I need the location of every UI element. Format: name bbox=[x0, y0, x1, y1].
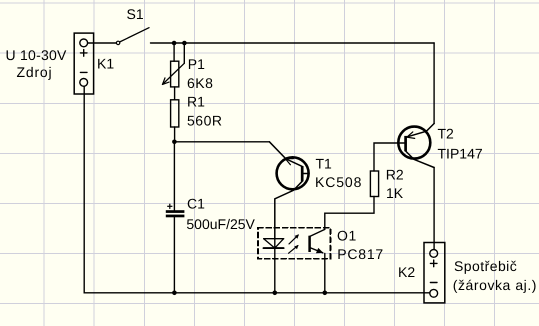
svg-text:6K8: 6K8 bbox=[187, 75, 213, 91]
switch S1 bbox=[116, 28, 149, 45]
svg-text:1K: 1K bbox=[386, 185, 404, 201]
connector K1 bbox=[74, 33, 93, 94]
label Spotřebič (žárovka aj.) load bbox=[453, 258, 537, 293]
label U 10-30V Zdroj (supply) bbox=[6, 47, 68, 80]
svg-text:K1: K1 bbox=[97, 56, 114, 72]
transistor T2 bbox=[374, 124, 434, 172]
junction node divider bbox=[172, 140, 177, 145]
svg-text:T2: T2 bbox=[438, 126, 455, 142]
junction O1 emitter ground bbox=[323, 291, 328, 296]
wire R2 to O1 collector bbox=[325, 197, 374, 230]
svg-text:500uF/25V: 500uF/25V bbox=[186, 216, 255, 232]
wire C1 to ground rail bbox=[173, 217, 175, 292]
svg-text:P1: P1 bbox=[188, 56, 205, 72]
svg-text:S1: S1 bbox=[127, 6, 144, 22]
svg-text:(žárovka aj.): (žárovka aj.) bbox=[453, 277, 537, 293]
transistor T1 bbox=[269, 142, 309, 239]
svg-text:C1: C1 bbox=[187, 196, 205, 212]
junction P1 wiper bbox=[182, 41, 187, 46]
optocoupler O1 bbox=[258, 228, 330, 293]
wire junction down to C1 bbox=[173, 142, 175, 211]
connector K2 bbox=[424, 243, 445, 303]
svg-text:U 10-30V: U 10-30V bbox=[6, 47, 68, 63]
wire R1 to junction bbox=[174, 127, 176, 142]
svg-text:R1: R1 bbox=[187, 94, 205, 110]
junction LED cathode ground bbox=[273, 291, 278, 296]
wire K1 pin1 to S1 bbox=[88, 42, 117, 44]
svg-text:Spotřebič: Spotřebič bbox=[454, 258, 517, 274]
junction P1 top bbox=[172, 41, 177, 46]
svg-text:KC508: KC508 bbox=[315, 174, 362, 190]
resistor R2 bbox=[370, 171, 378, 197]
svg-text:O1: O1 bbox=[337, 227, 357, 243]
wire P1 to R1 bbox=[174, 87, 176, 100]
wire T2 collector to K2 bbox=[433, 168, 435, 250]
svg-text:TIP147: TIP147 bbox=[438, 146, 483, 162]
svg-text:Zdroj: Zdroj bbox=[17, 64, 53, 80]
wire K1 pin2 to ground rail bbox=[84, 86, 430, 292]
svg-text:R2: R2 bbox=[386, 166, 404, 182]
svg-text:T1: T1 bbox=[316, 156, 333, 172]
svg-text:560R: 560R bbox=[187, 113, 222, 129]
svg-text:K2: K2 bbox=[398, 264, 415, 280]
wire to P1 top bbox=[173, 43, 175, 61]
junction C1 ground bbox=[172, 291, 177, 296]
potentiometer P1 bbox=[163, 43, 185, 87]
capacitor C1 bbox=[166, 204, 185, 218]
wire S1 to T2 emitter (top rail) bbox=[151, 42, 435, 44]
wire T1 collector into O1 LED bbox=[274, 239, 276, 293]
resistor R1 bbox=[171, 100, 179, 127]
svg-text:PC817: PC817 bbox=[337, 246, 384, 262]
wire junction to T1 base bbox=[174, 141, 269, 143]
wire top rail down to T2 bbox=[433, 43, 435, 124]
